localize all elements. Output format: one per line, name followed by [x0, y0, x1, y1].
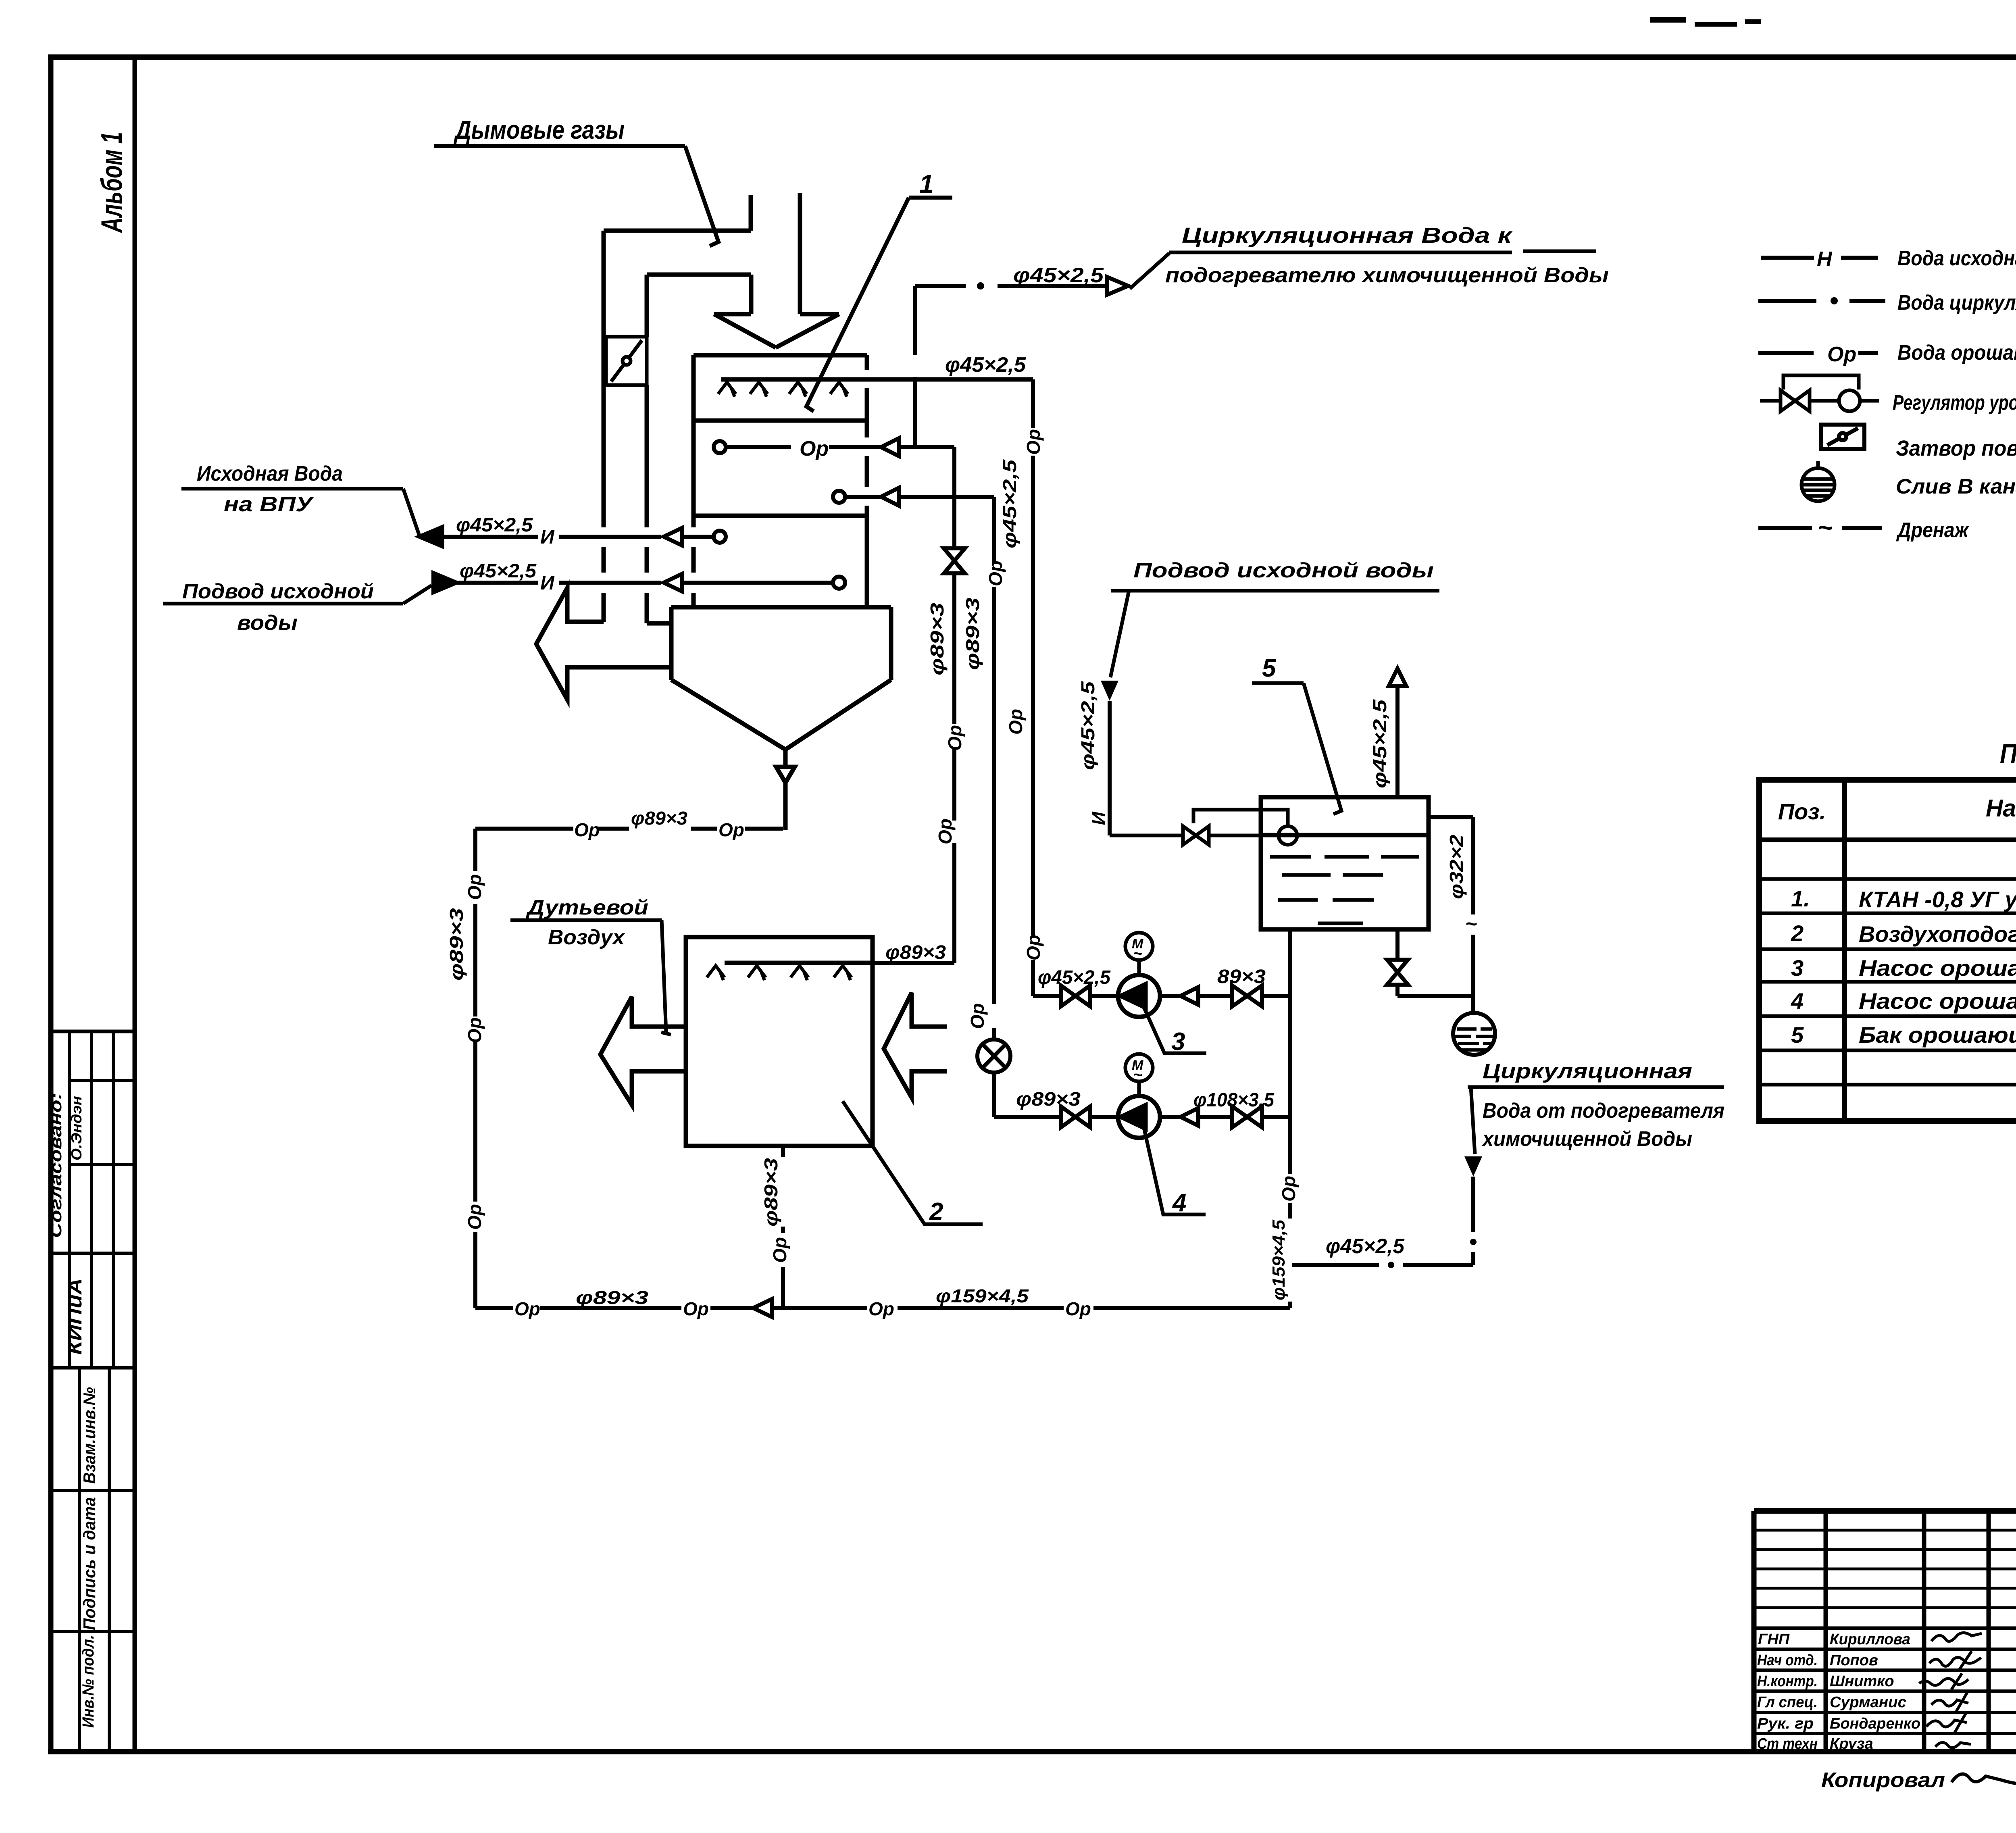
svg-text:О.Эндэн: О.Эндэн	[68, 1096, 85, 1160]
svg-text:φ89×3: φ89×3	[760, 1158, 781, 1227]
svg-text:Насос орошающей Воды К- 20: Насос орошающей Воды К- 20/30	[1859, 988, 2016, 1014]
svg-text:Подпись и дата: Подпись и дата	[80, 1497, 99, 1630]
svg-text:Нач отд.: Нач отд.	[1757, 1652, 1818, 1669]
svg-text:Ор: Ор	[464, 874, 485, 900]
svg-text:Ор: Ор	[464, 1204, 485, 1230]
svg-text:89×3: 89×3	[1217, 966, 1266, 987]
svg-text:Ст техн: Ст техн	[1757, 1735, 1818, 1752]
svg-text:Ор: Ор	[719, 819, 744, 840]
svg-text:Ор: Ор	[944, 725, 965, 751]
svg-text:Ор: Ор	[514, 1298, 540, 1319]
svg-text:1.: 1.	[1791, 886, 1810, 911]
svg-text:Ор: Ор	[868, 1298, 894, 1319]
svg-text:Подвод исходной воды: Подвод исходной воды	[1133, 559, 1434, 582]
svg-text:Ор: Ор	[967, 1003, 988, 1029]
svg-text:воды: воды	[237, 611, 298, 635]
svg-text:Затвор поворотный с электро: Затвор поворотный с электродвигателем	[1896, 436, 2016, 460]
svg-text:~: ~	[1465, 912, 1477, 935]
svg-text:φ45×2,5: φ45×2,5	[1369, 699, 1390, 788]
svg-text:φ89×3: φ89×3	[885, 942, 946, 963]
svg-text:Перечень оборудования: Перечень оборудования	[2000, 738, 2016, 769]
svg-text:Попов: Попов	[1830, 1652, 1878, 1669]
svg-text:Сурманис: Сурманис	[1830, 1694, 1906, 1711]
svg-text:Ор: Ор	[1005, 709, 1026, 735]
svg-text:Ор: Ор	[574, 819, 600, 840]
svg-text:2: 2	[1791, 921, 1804, 946]
svg-text:φ89×3: φ89×3	[446, 908, 467, 981]
svg-text:Вода от подогревателя: Вода от подогревателя	[1483, 1099, 1724, 1123]
svg-text:Н.контр.: Н.контр.	[1757, 1673, 1818, 1690]
svg-text:Вода циркуляционная: Вода циркуляционная	[1897, 291, 2016, 315]
svg-text:Бак орошающей Воды: Бак орошающей Воды	[1859, 1022, 2016, 1048]
svg-text:Ор: Ор	[1278, 1176, 1299, 1202]
svg-text:И: И	[540, 527, 555, 548]
svg-text:Ор: Ор	[935, 819, 956, 844]
svg-text:φ89×3: φ89×3	[631, 808, 687, 829]
svg-text:~: ~	[1133, 1066, 1142, 1084]
svg-text:Вода орошающая: Вода орошающая	[1897, 341, 2016, 365]
svg-text:Инв.№ подл.: Инв.№ подл.	[79, 1635, 97, 1728]
svg-text:φ45×2,5: φ45×2,5	[1013, 264, 1104, 287]
svg-text:φ159×4,5: φ159×4,5	[1269, 1219, 1289, 1300]
svg-text:3: 3	[1171, 1028, 1185, 1056]
svg-text:φ89×3: φ89×3	[576, 1287, 649, 1308]
svg-text:5: 5	[1262, 654, 1277, 682]
svg-text:Исходная Вода: Исходная Вода	[197, 462, 343, 485]
svg-text:Дренаж: Дренаж	[1896, 519, 1969, 542]
svg-text:Ор: Ор	[1827, 343, 1856, 366]
svg-text:Взам.инв.№: Взам.инв.№	[80, 1387, 99, 1484]
svg-text:И: И	[1088, 812, 1109, 825]
svg-text:КИПиА: КИПиА	[65, 1278, 86, 1355]
svg-text:Ор: Ор	[800, 437, 829, 460]
svg-text:Ор: Ор	[683, 1298, 709, 1319]
svg-text:Бондаренко: Бондаренко	[1830, 1715, 1920, 1732]
svg-text:Гл спец.: Гл спец.	[1757, 1694, 1818, 1711]
svg-text:Ор: Ор	[985, 560, 1006, 586]
svg-text:5: 5	[1791, 1022, 1804, 1048]
svg-text:Воздухоподогреватель КТМО -: Воздухоподогреватель КТМО -10 ПДВ	[1859, 921, 2016, 947]
svg-text:3: 3	[1791, 955, 1804, 981]
svg-text:Рук. гр: Рук. гр	[1757, 1715, 1814, 1732]
svg-text:Слив В канализацию: Слив В канализацию	[1896, 475, 2016, 498]
svg-text:Дутьевой: Дутьевой	[526, 896, 648, 919]
svg-text:Регулятор уровня, поплавковы: Регулятор уровня, поплавковый	[1893, 391, 2016, 415]
svg-text:Круза: Круза	[1830, 1735, 1873, 1752]
svg-text:φ89×3: φ89×3	[1016, 1089, 1081, 1110]
svg-text:КТАН -0,8 УГ утилизатор - га: КТАН -0,8 УГ утилизатор - газовый	[1859, 887, 2016, 912]
svg-text:~: ~	[1818, 513, 1833, 542]
svg-text:Н: Н	[1817, 248, 1833, 271]
svg-text:φ89×3: φ89×3	[962, 597, 983, 670]
svg-text:φ45×2,5: φ45×2,5	[945, 353, 1026, 377]
svg-text:Копировал: Копировал	[1821, 1768, 1945, 1792]
svg-text:Ор: Ор	[464, 1017, 485, 1043]
svg-text:φ89×3: φ89×3	[927, 602, 948, 675]
svg-text:Циркуляционная: Циркуляционная	[1483, 1060, 1692, 1083]
svg-text:Воздух: Воздух	[548, 926, 625, 949]
svg-text:φ45×2,5: φ45×2,5	[460, 560, 537, 582]
svg-text:Ор: Ор	[769, 1237, 790, 1263]
svg-text:2: 2	[929, 1198, 943, 1226]
svg-text:Вода исходная: Вода исходная	[1897, 247, 2016, 270]
svg-text:1: 1	[919, 169, 934, 198]
svg-text:подогревателю химочищенно: подогревателю химочищенной Воды	[1165, 264, 1609, 287]
svg-text:φ159×4,5: φ159×4,5	[936, 1285, 1029, 1306]
svg-text:4: 4	[1791, 988, 1804, 1014]
svg-text:Циркуляционная Вода: Циркуляционная Вода к	[1182, 223, 1513, 248]
svg-text:И: И	[540, 573, 555, 594]
svg-text:химочищенной Воды: химочищенной Воды	[1481, 1127, 1692, 1151]
svg-text:φ45×2,5: φ45×2,5	[1326, 1235, 1405, 1258]
svg-text:~: ~	[1133, 945, 1142, 962]
svg-text:Ор: Ор	[1065, 1298, 1091, 1319]
svg-text:φ45×2,5: φ45×2,5	[1038, 967, 1111, 988]
svg-text:φ45×2,5: φ45×2,5	[1077, 681, 1098, 770]
svg-text:φ108×3,5: φ108×3,5	[1193, 1089, 1275, 1111]
svg-text:Подвод исходной: Подвод исходной	[182, 580, 374, 603]
svg-text:Поз.: Поз.	[1778, 799, 1826, 824]
svg-text:Шнитко: Шнитко	[1830, 1673, 1894, 1690]
svg-text:ГНП: ГНП	[1758, 1631, 1790, 1648]
svg-text:Насос орошающей Воды ВК- 2: Насос орошающей Воды ВК- 2/26	[1859, 955, 2016, 981]
svg-text:φ45×2,5: φ45×2,5	[999, 459, 1020, 548]
svg-text:Ор: Ор	[1023, 429, 1044, 455]
svg-text:φ45×2,5: φ45×2,5	[456, 514, 533, 536]
svg-text:4: 4	[1172, 1189, 1186, 1217]
svg-text:Наименование: Наименование	[1986, 795, 2016, 822]
svg-text:Альбом 1: Альбом 1	[95, 132, 129, 233]
svg-text:Согласовано:: Согласовано:	[47, 1093, 65, 1238]
svg-text:Дымовые газы: Дымовые газы	[454, 115, 625, 144]
svg-text:Ор: Ор	[1023, 935, 1044, 960]
svg-text:φ32×2: φ32×2	[1446, 835, 1467, 899]
svg-text:Кириллова: Кириллова	[1830, 1631, 1910, 1648]
svg-text:на ВПУ: на ВПУ	[224, 493, 314, 516]
